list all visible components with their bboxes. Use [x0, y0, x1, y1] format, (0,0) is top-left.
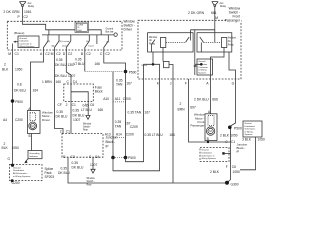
svg-text:1050: 1050 — [15, 68, 23, 72]
connector A4 C200 — [3, 118, 23, 122]
circuit breaker callout top right — [243, 121, 262, 137]
callout ground indication connector driver — [13, 36, 39, 48]
svg-text:166: 166 — [169, 133, 175, 137]
svg-text:Grounding: Grounding — [29, 152, 40, 155]
svg-text:M: M — [51, 52, 54, 56]
svg-text:C2: C2 — [68, 52, 72, 56]
relay box 2 — [197, 33, 232, 52]
pin P C2 — [18, 15, 28, 19]
svg-text:C2: C2 — [24, 15, 28, 19]
connector C200 A10 A11 — [103, 97, 131, 101]
wire fuse to junction block — [70, 102, 72, 134]
svg-text:Systems: Systems — [245, 133, 253, 136]
svg-text:P500: P500 — [15, 100, 23, 104]
svg-text:BRN: BRN — [178, 107, 186, 111]
ground distribution dashed box G200 — [10, 165, 43, 181]
svg-text:0.35: 0.35 — [57, 110, 64, 114]
svg-text:Schematics in: Schematics in — [202, 154, 216, 157]
svg-text:C2: C2 — [71, 155, 75, 159]
svg-text:Wiring Systems: Wiring Systems — [20, 45, 35, 48]
svg-text:2 BLK: 2 BLK — [210, 170, 220, 174]
svg-text:Driver: Driver — [124, 28, 133, 32]
wire J C6 off page arrow — [87, 102, 89, 116]
svg-text:Passenger: Passenger — [225, 18, 241, 22]
svg-text:Relay: Relay — [28, 6, 35, 8]
wire drop left — [48, 30, 50, 35]
svg-text:LT BLU: LT BLU — [81, 108, 92, 112]
svg-text:in Wiring Systems: in Wiring Systems — [13, 175, 31, 178]
svg-text:DK BLU: DK BLU — [55, 74, 68, 78]
svg-text:C4: C4 — [73, 80, 77, 84]
svg-text:C2: C2 — [56, 52, 60, 56]
svg-text:C1: C1 — [231, 140, 235, 144]
splice dot P500 on G wire — [228, 126, 232, 130]
svg-text:Switch -: Switch - — [83, 126, 91, 129]
svg-text:Connector in: Connector in — [20, 42, 33, 45]
fuse element — [71, 84, 88, 102]
svg-text:661: 661 — [211, 11, 217, 15]
svg-text:M: M — [8, 52, 11, 56]
label window switch driver — [124, 20, 136, 32]
svg-text:DK BLU: DK BLU — [14, 88, 27, 92]
svg-text:1050: 1050 — [230, 134, 238, 138]
svg-text:2 DK BLU: 2 DK BLU — [194, 97, 209, 101]
wire bus inside driver box — [42, 34, 114, 36]
svg-text:Wiring Systems: Wiring Systems — [202, 157, 216, 160]
wire J down to ground run — [172, 79, 174, 183]
window switch front passenger dashed box — [138, 20, 241, 79]
label junction block lower — [237, 143, 248, 154]
svg-text:0.35: 0.35 — [75, 58, 82, 62]
svg-text:1307: 1307 — [68, 74, 76, 78]
svg-text:Block: Block — [95, 89, 103, 93]
fuse block pin C C4 — [67, 80, 78, 84]
label window switch front passenger — [227, 6, 242, 23]
svg-text:0.8: 0.8 — [17, 83, 22, 87]
wire from id box to bus — [89, 30, 102, 35]
wire C C4 off page arrow — [92, 157, 94, 169]
svg-text:DK BLU: DK BLU — [72, 165, 85, 169]
wire feed left — [22, 7, 24, 22]
svg-text:Ground: Ground — [13, 166, 21, 169]
svg-text:(Buses): (Buses) — [14, 31, 24, 35]
svg-text:C1: C1 — [66, 130, 70, 134]
svg-text:G: G — [232, 82, 235, 86]
labels 0.35 TAN 167 mid — [115, 120, 131, 129]
splice dot P500 on V2 — [85, 71, 123, 73]
svg-text:Indication: Indication — [198, 63, 208, 66]
svg-text:Systems: Systems — [198, 71, 206, 74]
svg-text:167: 167 — [145, 111, 151, 115]
svg-text:1050: 1050 — [258, 137, 266, 141]
pin F C6 — [226, 165, 236, 169]
svg-text:Ground: Ground — [106, 27, 114, 30]
svg-text:0.35 TAN: 0.35 TAN — [128, 111, 142, 115]
svg-text:Block -: Block - — [106, 140, 116, 144]
svg-text:A10: A10 — [103, 97, 109, 101]
svg-text:Window: Window — [83, 124, 92, 126]
svg-text:C6: C6 — [90, 103, 94, 107]
junction block top pins — [60, 130, 70, 134]
svg-text:166: 166 — [95, 62, 101, 66]
svg-text:666: 666 — [212, 97, 218, 101]
svg-text:P500: P500 — [128, 156, 136, 160]
svg-text:Distribution: Distribution — [245, 125, 256, 128]
svg-text:Rear: Rear — [83, 129, 88, 132]
wire motor B down to junction — [207, 141, 209, 143]
svg-text:Down: Down — [62, 46, 68, 48]
label DK BLU 1307 second row — [55, 74, 76, 78]
relay box 1 — [148, 33, 194, 52]
svg-text:Relay: Relay — [228, 44, 235, 46]
passenger internal junction wires — [144, 64, 160, 79]
wire A C2 to driver motor — [31, 50, 44, 111]
passenger pin row — [157, 82, 235, 86]
junction block lower right dashed box — [200, 148, 229, 162]
svg-text:P500: P500 — [234, 126, 242, 130]
svg-text:697: 697 — [190, 105, 196, 109]
switch contact 1 — [44, 35, 49, 50]
svg-text:LT BLU: LT BLU — [74, 62, 85, 66]
svg-text:Passenger: Passenger — [190, 123, 204, 127]
wire M C2 1 BRN 160 — [55, 50, 64, 134]
label splice pack — [45, 167, 55, 179]
svg-text:A4: A4 — [3, 118, 7, 122]
svg-text:G: G — [8, 157, 11, 161]
svg-text:Indicator: Indicator — [29, 155, 38, 158]
svg-text:Ground: Ground — [202, 149, 210, 152]
svg-text:SP203: SP203 — [45, 175, 55, 179]
svg-text:C2: C2 — [45, 52, 49, 56]
wire through junction block lower — [227, 148, 231, 183]
svg-text:Rear: Rear — [87, 183, 92, 186]
callout ground indication passenger — [197, 59, 213, 75]
svg-text:2 DK GRN: 2 DK GRN — [188, 11, 205, 15]
svg-text:Distribution: Distribution — [202, 152, 213, 155]
svg-text:Bus bar: Bus bar — [106, 31, 114, 34]
label 2 DK GRN 661 — [188, 11, 217, 15]
svg-text:P500: P500 — [129, 70, 137, 74]
svg-text:C1: C1 — [72, 103, 76, 107]
svg-text:in Wiring: in Wiring — [198, 69, 207, 72]
wire G down — [231, 79, 236, 142]
wire V1 to passenger K — [113, 79, 160, 171]
driver box pin row — [8, 52, 110, 56]
svg-text:1307: 1307 — [73, 118, 81, 122]
svg-text:166: 166 — [98, 108, 104, 112]
svg-text:C2: C2 — [105, 52, 109, 56]
wire V2 riser into passenger box — [126, 64, 144, 161]
fuse block bottom pins — [58, 103, 95, 107]
label 2 DK GRN 1061 — [3, 10, 31, 14]
svg-text:Junction: Junction — [106, 136, 118, 140]
svg-text:2: 2 — [60, 130, 62, 134]
ground dot G300 — [225, 181, 229, 185]
label 0.35 TAN 167 riser — [128, 111, 151, 115]
svg-text:F: F — [185, 82, 187, 86]
svg-text:IP: IP — [106, 145, 109, 149]
callout grounding box — [28, 151, 42, 159]
wire motor to ground callout — [31, 134, 33, 151]
svg-text:Down: Down — [89, 46, 95, 48]
svg-text:CF: CF — [58, 103, 62, 107]
svg-text:G200: G200 — [12, 181, 20, 185]
svg-text:Schematics: Schematics — [245, 128, 256, 131]
window motor driver box — [28, 111, 41, 134]
wire B C2 to V1 — [85, 50, 113, 158]
fuse block dashed box — [64, 84, 94, 102]
wire ground pin riser — [12, 44, 14, 51]
label aux relay right — [220, 2, 227, 8]
svg-text:Indication: Indication — [20, 40, 30, 43]
wire feed staircase inside driver box — [23, 21, 76, 30]
label 2 BLK 1050 lower right — [210, 170, 240, 174]
junction block label — [106, 136, 118, 149]
svg-text:(F): (F) — [86, 41, 89, 43]
svg-text:0.35: 0.35 — [56, 58, 63, 62]
wire E C2 ground run — [68, 157, 227, 183]
label buses — [14, 31, 24, 35]
motor symbol passenger — [206, 127, 214, 135]
fuse symbol left feed — [20, 2, 27, 7]
svg-text:Distribution: Distribution — [13, 169, 25, 172]
feed split inside passenger box — [191, 30, 215, 75]
svg-text:C209: C209 — [130, 125, 138, 129]
id box double border — [75, 22, 89, 33]
label aux relay left — [28, 2, 35, 8]
splice P500 row on V1 V2 — [111, 156, 115, 160]
connector C209 riser — [130, 125, 138, 129]
svg-text:(F) Locked: (F) Locked — [59, 41, 70, 43]
svg-text:Ground: Ground — [20, 38, 28, 40]
ground bus symbol — [106, 27, 118, 36]
switch contact 2 — [55, 35, 60, 50]
svg-text:(A): (A) — [52, 45, 55, 48]
svg-text:Window: Window — [149, 37, 158, 39]
svg-text:G300: G300 — [231, 182, 239, 186]
pin M — [215, 16, 218, 20]
svg-text:C6: C6 — [232, 165, 236, 169]
wire feed right — [214, 7, 216, 34]
svg-text:Driver: Driver — [42, 118, 50, 122]
svg-text:TAN: TAN — [116, 82, 123, 86]
svg-text:Connector: Connector — [198, 66, 208, 69]
svg-text:(F): (F) — [107, 42, 110, 44]
svg-text:J: J — [170, 82, 172, 86]
svg-text:0.35: 0.35 — [61, 167, 68, 171]
wire drop — [96, 35, 98, 44]
svg-text:F: F — [226, 165, 228, 169]
svg-text:M: M — [215, 16, 218, 20]
connector C209 A13 A14 — [105, 132, 134, 136]
svg-text:2 BLK: 2 BLK — [220, 134, 230, 138]
svg-text:0.35: 0.35 — [73, 109, 80, 113]
svg-text:164: 164 — [33, 88, 39, 92]
junction block bottom pins — [63, 155, 99, 159]
labels 0.35 TAN 167 upper — [116, 78, 132, 86]
svg-text:0.35 LT BLU: 0.35 LT BLU — [145, 133, 164, 137]
svg-text:Switch -: Switch - — [87, 180, 95, 183]
svg-text:C2: C2 — [86, 52, 90, 56]
svg-text:2: 2 — [66, 103, 68, 107]
svg-text:(F): (F) — [48, 41, 51, 43]
svg-text:167: 167 — [126, 81, 132, 85]
svg-text:C200: C200 — [123, 97, 131, 101]
wire F down to motor junction — [189, 79, 231, 142]
svg-text:1061: 1061 — [24, 10, 32, 14]
junction block middle dashed box — [62, 134, 103, 158]
svg-text:DK BLU: DK BLU — [56, 115, 69, 119]
svg-text:0.35: 0.35 — [115, 120, 122, 124]
svg-text:BLK: BLK — [2, 146, 9, 150]
svg-text:C1: C1 — [15, 52, 19, 56]
svg-text:160: 160 — [56, 80, 62, 84]
svg-text:All Schematics: All Schematics — [13, 172, 28, 175]
window switch driver box — [7, 21, 122, 50]
switch labels — [48, 41, 110, 47]
svg-text:IP: IP — [237, 150, 240, 154]
label window motor driver — [42, 111, 54, 122]
fuse symbol right feed — [212, 2, 218, 7]
wire 3 BLK 1050 — [240, 137, 256, 170]
wire D C2 to fuse block — [66, 50, 71, 84]
svg-text:BLK: BLK — [2, 68, 9, 72]
switch contact 5 — [104, 35, 109, 50]
svg-text:2 DK GRN: 2 DK GRN — [3, 10, 20, 14]
svg-text:Ground: Ground — [245, 122, 253, 125]
svg-text:Window: Window — [87, 178, 96, 180]
svg-text:Window: Window — [228, 38, 237, 40]
wire C C2 to V2 — [104, 50, 126, 158]
wire A to motor pass top — [210, 79, 212, 114]
svg-text:Relay: Relay — [220, 6, 227, 8]
svg-text:1050: 1050 — [233, 170, 241, 174]
svg-text:A11: A11 — [115, 97, 121, 101]
wire M C1 ground 2 BLK 1050 — [12, 50, 14, 165]
svg-text:DK BLU: DK BLU — [73, 113, 86, 117]
label 2 BLK 1050 motor — [220, 134, 238, 138]
svg-text:in Wiring: in Wiring — [245, 130, 254, 133]
svg-text:DK BLU: DK BLU — [55, 63, 68, 67]
svg-text:2: 2 — [4, 63, 6, 67]
svg-text:1050: 1050 — [12, 146, 20, 150]
window motor front passenger box — [205, 114, 217, 141]
label window motor front passenger — [190, 112, 205, 127]
svg-text:2: 2 — [180, 102, 182, 106]
svg-text:1 BRN: 1 BRN — [42, 80, 52, 84]
wire C C1 into junction block lower — [230, 142, 232, 148]
motor symbol driver — [29, 122, 37, 130]
label 2 BLK 1050 lower — [2, 142, 20, 150]
svg-text:0.35: 0.35 — [72, 161, 79, 165]
switch contact 3 — [66, 35, 71, 50]
svg-text:1307: 1307 — [90, 163, 98, 167]
splice dot P500 on ground wire — [11, 99, 15, 103]
svg-text:C209: C209 — [126, 132, 134, 136]
svg-text:Ground: Ground — [198, 60, 206, 63]
svg-text:DK BLU: DK BLU — [58, 171, 71, 175]
small component box — [164, 61, 170, 67]
svg-text:Reset: Reset — [142, 64, 148, 67]
svg-text:C4: C4 — [95, 155, 99, 159]
svg-text:TAN: TAN — [115, 125, 122, 129]
switch contact 4 — [85, 35, 90, 50]
svg-text:C200: C200 — [15, 118, 23, 122]
svg-text:3 BLK: 3 BLK — [242, 137, 252, 141]
